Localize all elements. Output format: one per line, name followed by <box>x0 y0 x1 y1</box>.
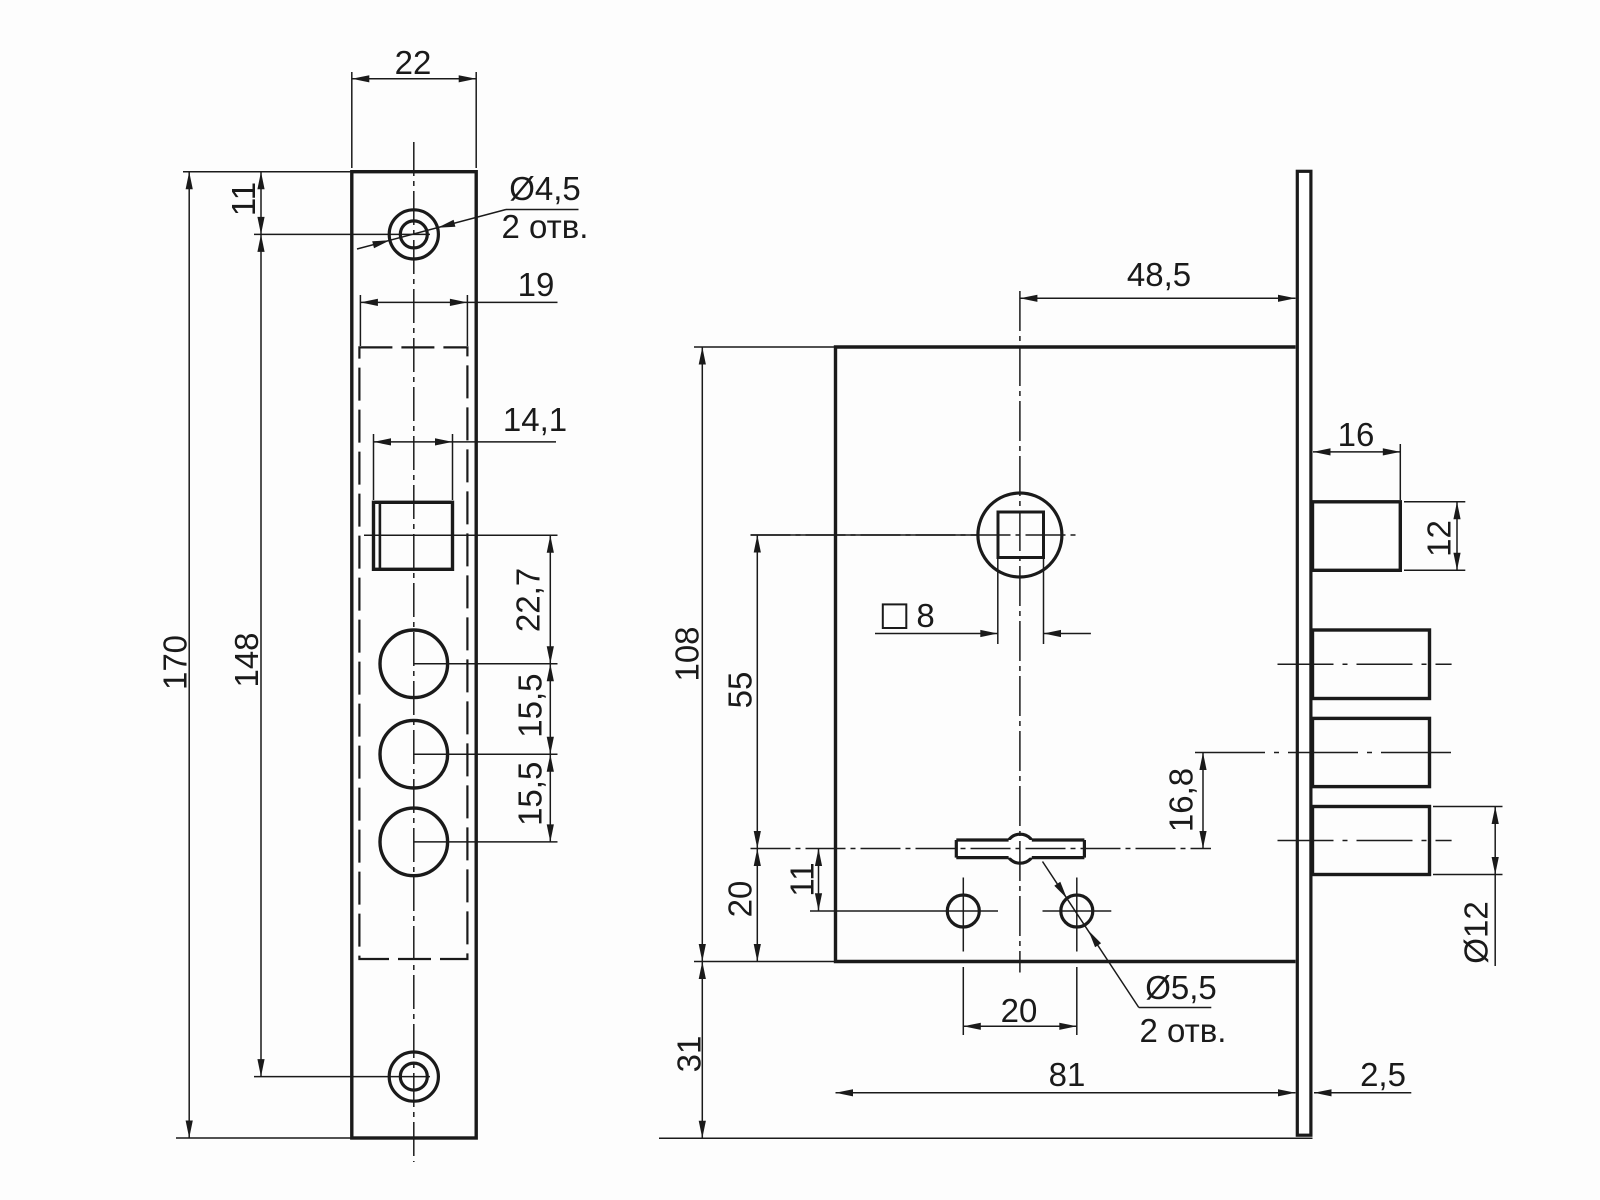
right view: mounting hole left <box>947 895 979 927</box>
svg-text:12: 12 <box>1421 520 1458 557</box>
svg-text:20: 20 <box>722 881 759 918</box>
dimension 16 (latch protrusion) <box>1399 444 1401 500</box>
deadbolt 2 center extension <box>414 753 558 755</box>
svg-text:22,7: 22,7 <box>510 568 547 632</box>
svg-text:48,5: 48,5 <box>1127 256 1191 293</box>
svg-text:14,1: 14,1 <box>503 401 567 438</box>
svg-text:2,5: 2,5 <box>1360 1056 1406 1093</box>
leader diameter 5,5 two holes <box>1043 862 1139 1008</box>
dimension square 8 (spindle hole) <box>997 558 999 645</box>
dimension 19 (body slot width) <box>359 295 361 346</box>
dimension 16,8 (bolt 2 to lever) <box>1202 753 1204 849</box>
svg-text:170: 170 <box>157 635 194 690</box>
deadbolt 1 center extension <box>414 663 558 665</box>
svg-text:108: 108 <box>669 626 706 681</box>
dimension 20 (mounting holes spacing) <box>962 967 964 1035</box>
right view: lever horizontal centerline <box>751 848 1212 850</box>
dimension 2,5 (faceplate thickness) <box>1314 1092 1411 1094</box>
deadbolt 2 centerline <box>1195 752 1452 754</box>
right view: spindle vertical centerline <box>1019 291 1021 973</box>
right view: spindle horizontal centerline <box>751 534 1077 536</box>
svg-text:55: 55 <box>722 672 759 709</box>
dimension 22 (plate width) <box>351 72 353 168</box>
left view: vertical centerline <box>413 142 415 1162</box>
svg-text:8: 8 <box>916 597 934 634</box>
dimension 31 (below body) <box>659 1137 1313 1139</box>
deadbolt 3 center extension <box>414 841 558 843</box>
svg-text:Ø12: Ø12 <box>1458 901 1495 963</box>
dimension 108 (body height) <box>694 346 836 348</box>
dimension 148 (screw hole spacing) <box>254 233 430 235</box>
right view: square spindle hole 8x8 <box>998 512 1044 558</box>
right view: deadbolt 2 <box>1313 718 1430 786</box>
dimension 170 (plate height) <box>183 171 352 173</box>
dimension chain 22,7 / 15,5 / 15,5 <box>549 535 551 842</box>
svg-text:148: 148 <box>228 632 265 687</box>
right view: deadbolt 3 <box>1313 807 1430 875</box>
left view: hidden lock body (dashed rect) <box>359 347 467 959</box>
dimension 11 (top hole offset) <box>260 172 262 235</box>
right view: key lever bar <box>1006 834 1035 863</box>
left view: bottom screw hole <box>389 1052 438 1101</box>
svg-text:19: 19 <box>518 266 555 303</box>
svg-text:20: 20 <box>1001 992 1038 1029</box>
svg-text:11: 11 <box>784 862 821 896</box>
deadbolt 3 centerline <box>1278 840 1452 842</box>
right view: spindle hub circle <box>978 493 1062 577</box>
leader diameter 4,5 two holes <box>357 210 506 250</box>
left view: latch hole <box>374 502 453 569</box>
svg-text:81: 81 <box>1049 1056 1086 1093</box>
svg-text:31: 31 <box>671 1036 708 1073</box>
left view: deadbolt hole 2 <box>380 720 448 788</box>
svg-text:15,5: 15,5 <box>512 762 549 826</box>
svg-text:11: 11 <box>225 182 262 216</box>
dimension 55 (spindle to lever) <box>751 534 979 536</box>
dimension 81 (body width) <box>836 1092 1296 1094</box>
svg-text:16: 16 <box>1338 416 1375 453</box>
svg-text:Ø4,5: Ø4,5 <box>509 170 581 207</box>
svg-text:2 отв.: 2 отв. <box>502 208 589 245</box>
dimension 48,5 (spindle to faceplate) <box>1020 297 1296 299</box>
svg-text:16,8: 16,8 <box>1163 768 1200 832</box>
right view: faceplate strip <box>1297 171 1311 1135</box>
left view: deadbolt hole 3 <box>380 808 448 876</box>
latch centerline extension <box>364 534 558 536</box>
right view: mounting hole right <box>1061 895 1093 927</box>
left view: deadbolt hole 1 <box>380 630 448 698</box>
dimension 14,1 (latch hole width) <box>373 434 375 500</box>
dimension 20 (lever to body bottom) <box>756 849 758 962</box>
right view: latch bolt <box>1313 502 1401 571</box>
deadbolt 1 centerline <box>1278 663 1452 665</box>
left view: top screw hole <box>389 210 438 259</box>
dimension diameter 12 (bolt diameter) <box>1433 806 1503 808</box>
dimension 11 (lever to holes) <box>818 849 820 911</box>
left view: faceplate outline <box>352 172 476 1138</box>
svg-text:15,5: 15,5 <box>512 673 549 737</box>
svg-text:Ø5,5: Ø5,5 <box>1145 969 1217 1006</box>
svg-text:22: 22 <box>395 44 432 81</box>
right view: lock body outline <box>836 347 1296 962</box>
right view: deadbolt 1 <box>1313 630 1430 699</box>
dimension 12 (latch height) <box>1404 501 1465 503</box>
svg-text:2 отв.: 2 отв. <box>1140 1012 1227 1049</box>
